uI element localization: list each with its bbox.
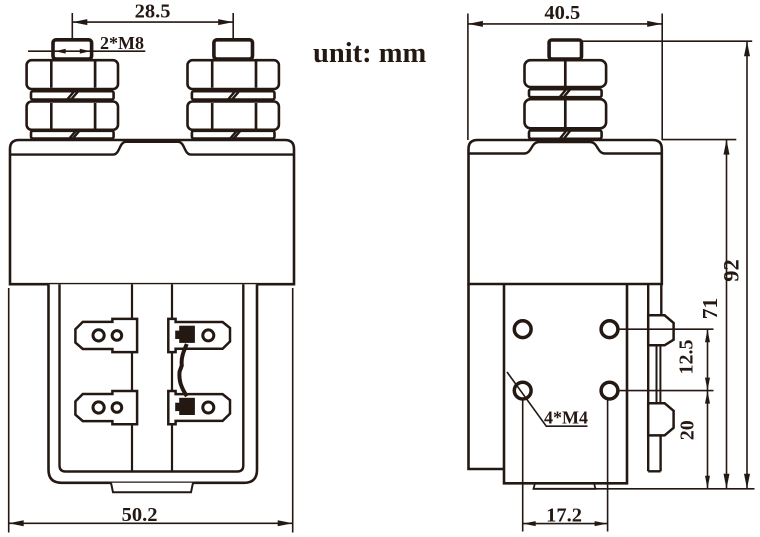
extension line hole row upper for 12.5 [618, 328, 713, 330]
right view: bracket strip right edge lower [659, 435, 661, 471]
right view: hex bump upper [648, 315, 673, 345]
right view: rod between bumps [656, 345, 658, 403]
svg-text:71: 71 [698, 298, 722, 320]
extension line from stud top for 92 [583, 40, 753, 42]
dimension 17.2 line and arrows [523, 523, 608, 525]
bottom washer side view [529, 129, 602, 140]
coil terminal upper right with black plug [168, 319, 230, 352]
hex nut upper side view [525, 60, 607, 87]
left view: inner divider line 1 [131, 284, 133, 471]
dimension 50.2 line and arrows [9, 522, 293, 524]
washer between nuts right [192, 90, 275, 101]
svg-text:17.2: 17.2 [546, 504, 582, 526]
right view: bracket strip left edge [647, 284, 649, 471]
svg-text:40.5: 40.5 [544, 2, 580, 24]
svg-text:unit: mm: unit: mm [313, 38, 426, 69]
dimension 71 line and arrows [726, 140, 728, 489]
dimension 28.5 extension lines [71, 13, 73, 40]
extension line from body top for 71 [662, 139, 737, 141]
right view: left block lower body [469, 284, 505, 469]
dimension 20 line and arrows [707, 391, 709, 489]
dimension 50.2 extension lines [8, 288, 10, 533]
mounting hole top-left 4*M4 [514, 321, 531, 338]
hex nut lower left [27, 102, 118, 130]
left view: lower housing outer shell [49, 284, 258, 483]
right view: top cover parting line with raised boss [469, 142, 662, 154]
left view: inner divider line 2 [171, 284, 173, 471]
coil terminal upper left (two holes) [75, 319, 137, 352]
svg-text:4*M4: 4*M4 [544, 408, 588, 428]
hex nut lower right [188, 102, 279, 130]
extension line hole row lower for 12.5/20 [618, 390, 713, 392]
right view: bracket strip right edge upper [660, 284, 662, 315]
bolt stud M8 right [214, 40, 253, 59]
svg-text:2*M8: 2*M8 [100, 33, 144, 53]
left view: top cover parting line with raised center [10, 142, 294, 155]
svg-text:50.2: 50.2 [122, 504, 158, 526]
bottom washer right [192, 129, 275, 140]
svg-text:12.5: 12.5 [675, 340, 697, 375]
right view: bracket strip bottom [648, 470, 660, 472]
dimension 92 line and arrows [746, 41, 748, 489]
dimension 2*M8 leader line and arrows [28, 50, 145, 52]
bolt stud M8 left [53, 40, 92, 59]
left view: bottom mounting tab [111, 483, 193, 493]
svg-text:92: 92 [719, 259, 744, 282]
dimension 17.2 extension lines [522, 400, 524, 532]
mounting hole bottom-right 4*M4 [601, 382, 618, 399]
dimension 12.5 line and arrows [707, 329, 709, 390]
hex nut lower side view [525, 99, 607, 128]
mounting hole top-right 4*M4 [601, 321, 618, 338]
left view: lower housing inner wall [60, 284, 244, 471]
bottom datum line [534, 488, 755, 490]
svg-text:20: 20 [677, 420, 699, 440]
leader line 4*M4 [507, 372, 588, 426]
right view: coil housing body side [469, 140, 662, 284]
dimension 28.5 line and arrows [72, 21, 233, 23]
jumper wire between right terminals [179, 344, 186, 396]
bolt stud M8 side view [549, 40, 581, 59]
washer between nuts left [31, 90, 114, 101]
mounting hole bottom-left 4*M4 [514, 382, 531, 399]
bottom washer left [31, 129, 114, 140]
dimension 40.5 line and arrows [468, 23, 662, 25]
left view: coil housing body [10, 140, 294, 284]
right view: hex bump lower [648, 403, 673, 435]
hex nut upper right [188, 60, 279, 89]
washer between nuts side view [529, 88, 602, 99]
svg-text:28.5: 28.5 [135, 1, 171, 23]
coil terminal lower left (two holes) [75, 391, 137, 424]
right view: contact housing plate [504, 284, 627, 483]
right view: bottom tab side view [534, 483, 596, 489]
coil terminal lower right with black plug [168, 391, 230, 424]
dimension 40.5 extension lines [467, 14, 469, 141]
hex nut upper left [27, 60, 118, 89]
